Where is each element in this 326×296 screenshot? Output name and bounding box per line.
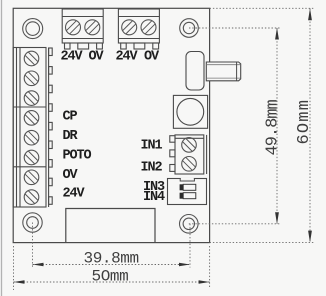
mounting hole top-right [180,19,199,38]
left terminal block body [13,48,48,208]
svg-text:IN4: IN4 [143,190,165,205]
trimmer square with circle [173,95,207,128]
svg-text:24V: 24V [116,50,139,65]
svg-text:POTO: POTO [63,148,92,163]
svg-text:24V: 24V [63,187,86,202]
screw L4 CP [24,111,39,126]
screw T2a [122,20,137,35]
IN terminal block body [175,135,207,174]
IN block tabs [170,136,175,172]
extension line from bottom-left hole down [32,223,34,268]
svg-text:OV: OV [89,50,105,65]
dimension line 39.8mm [33,263,191,266]
potentiometer body [186,52,204,91]
svg-text:24V: 24V [61,50,84,65]
dimension extension line bottom (60mm bottom ref) [210,242,315,244]
board outline [13,8,209,242]
screw T1a [66,20,81,35]
left block tabs [49,48,53,204]
svg-text:OV: OV [63,168,79,183]
svg-text:5Omm: 5Omm [92,268,129,286]
left image-edge artifact line [1,0,3,296]
DIP switch body [168,179,207,205]
svg-text:IN2: IN2 [141,161,163,176]
DIP switch 2 [180,193,196,199]
terminal block top-2 tabs [121,43,159,49]
dimension line 49.8mm vertical [275,28,279,225]
svg-text:39.8mm: 39.8mm [84,250,139,268]
mounting hole top-left [23,19,43,39]
terminal block top-1 body [62,9,103,43]
bottom connector rectangle [66,209,155,243]
screw IN2 [182,157,197,172]
dimension extension line top (60mm top ref) [210,7,315,9]
svg-text:IN1: IN1 [141,139,163,154]
potentiometer shaft [206,62,240,81]
dimension line 60mm vertical [308,8,312,242]
mounting hole bottom-right [180,215,199,234]
screw T2b [141,20,156,35]
screw L5 DR [24,130,39,145]
screw L2 [24,71,39,86]
extension line from board left edge down [13,246,15,290]
screw L7 0V [24,170,39,185]
svg-text:DR: DR [63,129,79,144]
extension line from bottom-right hole down [189,224,191,268]
terminal block top-1 tabs [65,43,103,49]
extension line from board right edge down [209,246,211,288]
screw L6 POTO [24,150,39,165]
screw T1b [85,20,100,35]
screw L3 [24,91,39,106]
mounting hole bottom-left [23,213,42,232]
svg-text:6Omm: 6Omm [295,99,314,145]
dimension extension line from bottom-right hole (49.8 bottom ref) [189,223,281,225]
dimension line 50mm [14,280,210,283]
dimension extension line from top-right hole (49.8 top ref) [189,27,281,29]
svg-text:49.8mm: 49.8mm [264,99,283,155]
screw L8 24V [24,190,39,205]
svg-text:CP: CP [63,110,78,125]
screw L1 [24,51,39,66]
svg-text:OV: OV [144,50,160,65]
terminal block top-2 body [118,9,159,43]
DIP switch 1 [180,184,196,190]
screw IN1 [182,138,197,153]
